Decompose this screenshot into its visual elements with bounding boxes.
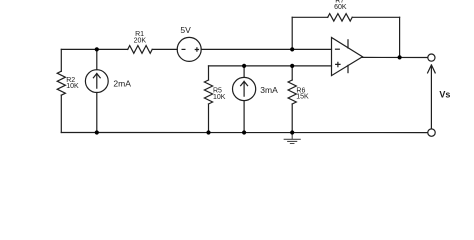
svg-text:60K: 60K bbox=[334, 4, 347, 11]
svg-text:20K: 20K bbox=[134, 38, 147, 45]
junction bottom / R6 ground bbox=[290, 130, 294, 134]
wire R6 branch bottom bbox=[291, 104, 293, 133]
wire R5 branch bottom bbox=[208, 104, 210, 133]
resistor R7 bbox=[328, 14, 353, 22]
wire R6 branch top bbox=[291, 66, 293, 80]
resistor R1 bbox=[128, 46, 153, 54]
junction output / feedback bbox=[398, 55, 402, 59]
svg-text:Vs: Vs bbox=[439, 90, 450, 100]
junction bottom / 3mA bbox=[242, 130, 246, 134]
svg-text:10K: 10K bbox=[213, 94, 226, 101]
op-amp plus mark bbox=[336, 62, 340, 66]
wire left branch bottom bbox=[60, 95, 62, 132]
wire top rail left segment bbox=[61, 48, 127, 50]
junction node B / R6 bbox=[290, 64, 294, 68]
svg-text:5V: 5V bbox=[180, 25, 191, 35]
svg-text:2mA: 2mA bbox=[113, 78, 131, 88]
op-amp top power pin bbox=[347, 40, 349, 48]
svg-text:15K: 15K bbox=[296, 94, 309, 101]
wire 5V to op-amp minus input bbox=[201, 48, 331, 50]
resistor R2 bbox=[57, 71, 65, 95]
V1 minus mark bbox=[182, 48, 185, 50]
wire left branch top bbox=[60, 49, 62, 71]
current source I1 2mA bbox=[85, 70, 108, 93]
svg-text:3mA: 3mA bbox=[260, 85, 278, 95]
voltage source V1 5V bbox=[177, 37, 201, 61]
resistor R5 bbox=[204, 80, 212, 104]
wire node B horizontal bbox=[209, 65, 332, 67]
junction node B / 3mA bbox=[242, 64, 246, 68]
terminal output bottom bbox=[428, 129, 435, 136]
op-amp minus mark bbox=[336, 48, 340, 50]
terminal output top bbox=[428, 54, 435, 61]
current source I2 3mA bbox=[233, 77, 256, 100]
wire R1 to 5V source bbox=[152, 48, 177, 50]
svg-text:10K: 10K bbox=[66, 83, 79, 90]
wire feedback drop to output bbox=[399, 17, 401, 57]
wire bottom rail bbox=[61, 132, 428, 134]
ground bbox=[284, 133, 300, 144]
junction top rail / 2mA bbox=[95, 47, 99, 51]
op-amp U1 triangle bbox=[332, 38, 363, 76]
junction bottom / 2mA bbox=[95, 130, 99, 134]
wire feedback top left bbox=[292, 16, 328, 18]
wire R5 branch top bbox=[208, 66, 210, 80]
wire 2mA branch top bbox=[96, 49, 98, 69]
wire feedback riser from minus node bbox=[291, 17, 293, 49]
V1 plus mark bbox=[195, 48, 198, 51]
resistor R6 bbox=[288, 80, 296, 104]
wire feedback top right bbox=[352, 16, 399, 18]
wire 3mA branch bottom bbox=[243, 101, 245, 133]
junction bottom / R5 bbox=[206, 130, 210, 134]
I1 arrow bbox=[93, 74, 100, 89]
wire 2mA branch bottom bbox=[96, 93, 98, 133]
junction top rail / feedback bbox=[290, 47, 294, 51]
op-amp bottom power pin bbox=[347, 65, 349, 72]
Vs arrow bbox=[428, 65, 436, 129]
wire 3mA branch top bbox=[243, 66, 245, 78]
I2 arrow bbox=[241, 81, 248, 96]
wire op-amp output bbox=[363, 56, 428, 58]
